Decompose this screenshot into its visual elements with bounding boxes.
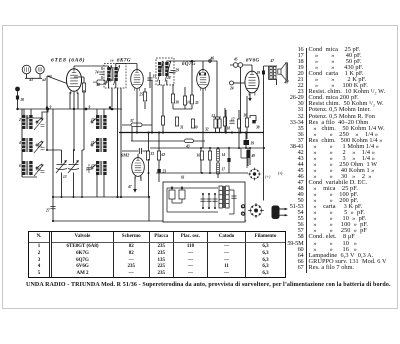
svg-text:39: 39	[250, 142, 255, 146]
svg-text:6Q7G: 6Q7G	[182, 62, 196, 67]
svg-text:61: 61	[181, 176, 185, 180]
svg-text:7N: 7N	[38, 145, 43, 149]
svg-text:+: +	[245, 218, 248, 223]
svg-text:29: 29	[175, 69, 180, 73]
svg-text:a1: a1	[30, 78, 34, 82]
svg-text:19: 19	[257, 71, 261, 75]
svg-text:35: 35	[194, 101, 199, 105]
svg-text:2: 2	[18, 118, 21, 122]
svg-text:16: 16	[110, 59, 114, 63]
svg-text:51: 51	[212, 114, 216, 118]
svg-text:9: 9	[89, 106, 91, 110]
svg-text:49: 49	[251, 154, 256, 158]
svg-text:24: 24	[229, 87, 234, 91]
svg-text:a2: a2	[43, 78, 47, 82]
svg-text:27: 27	[45, 209, 50, 213]
svg-text:712: 712	[36, 168, 42, 172]
svg-text:43: 43	[185, 145, 190, 149]
svg-text:47: 47	[127, 185, 132, 189]
svg-text:28: 28	[166, 76, 171, 80]
svg-text:4: 4	[18, 141, 21, 145]
svg-text:74: 74	[95, 71, 99, 75]
svg-text:38: 38	[255, 126, 260, 130]
svg-text:33: 33	[150, 152, 155, 156]
svg-text:48: 48	[96, 83, 101, 87]
svg-text:47: 47	[270, 59, 275, 63]
svg-text:7: 7	[36, 122, 38, 126]
svg-text:10: 10	[91, 118, 95, 122]
svg-text:19: 19	[108, 79, 112, 83]
svg-text:9: 9	[50, 106, 52, 110]
svg-text:11: 11	[91, 141, 95, 145]
svg-text:6: 6	[19, 164, 21, 168]
svg-text:(+): (+)	[265, 174, 271, 179]
svg-text:6M2: 6M2	[121, 153, 130, 158]
svg-text:25: 25	[139, 93, 144, 97]
svg-text:45: 45	[233, 58, 238, 62]
svg-text:36: 36	[243, 114, 248, 118]
svg-text:37: 37	[129, 119, 134, 123]
svg-text:17: 17	[231, 118, 235, 122]
svg-text:18: 18	[227, 127, 231, 131]
svg-text:30: 30	[175, 101, 180, 105]
svg-text:23: 23	[162, 170, 167, 174]
svg-text:46: 46	[210, 57, 215, 61]
svg-text:16: 16	[197, 154, 201, 158]
svg-text:14: 14	[222, 153, 226, 157]
svg-text:(+): (+)	[278, 172, 282, 176]
svg-text:32: 32	[204, 128, 209, 132]
svg-text:18: 18	[86, 168, 90, 172]
svg-text:13: 13	[63, 175, 67, 179]
svg-text:6V6G: 6V6G	[246, 59, 260, 64]
svg-text:30: 30	[193, 126, 198, 130]
svg-text:31: 31	[179, 126, 184, 130]
svg-text:6TE8 (6A8): 6TE8 (6A8)	[51, 57, 85, 64]
svg-text:20: 20	[20, 98, 25, 102]
svg-text:62: 62	[162, 153, 166, 157]
svg-text:16: 16	[187, 101, 191, 105]
svg-text:15: 15	[153, 75, 157, 79]
svg-text:17: 17	[222, 168, 226, 172]
svg-text:12: 12	[91, 164, 95, 168]
svg-text:6K7G: 6K7G	[117, 59, 131, 64]
